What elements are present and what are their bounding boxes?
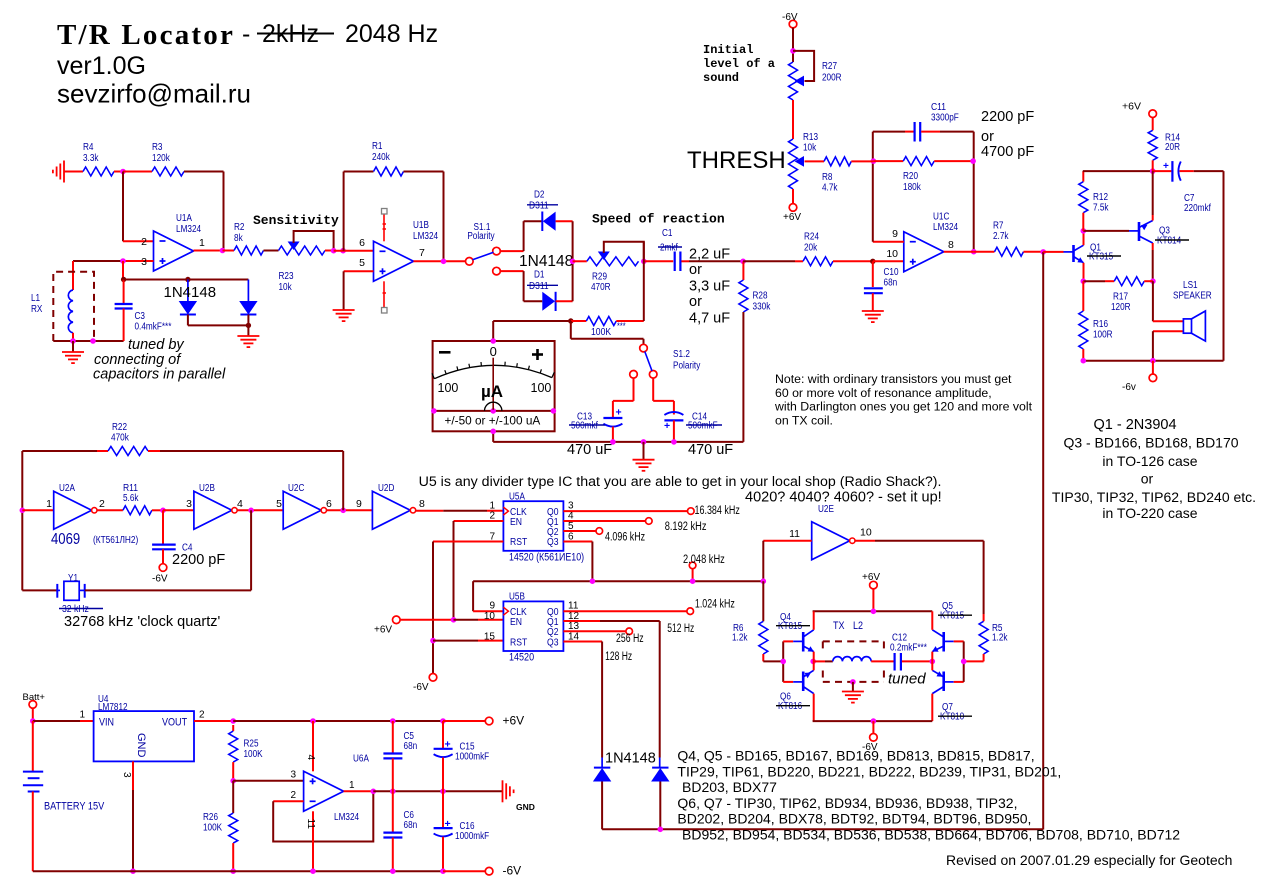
svg-text:+6V: +6V: [1122, 101, 1141, 113]
capacitor C4: [162, 510, 164, 544]
wire: [792, 28, 794, 62]
svg-text:R17: R17: [1113, 292, 1128, 303]
svg-text:+: +: [445, 818, 451, 830]
resistor R28: [742, 261, 744, 280]
right vertical from C7: [1223, 171, 1225, 361]
svg-text:in TO-126 case: in TO-126 case: [1102, 453, 1197, 469]
svg-text:Initial: Initial: [703, 43, 753, 57]
right base bracket: [963, 641, 965, 682]
svg-text:8k: 8k: [234, 233, 244, 244]
meter feed node: [568, 318, 573, 323]
TX bottom rail: [813, 720, 933, 722]
coil TX L2: [813, 660, 825, 662]
svg-text:220mkf: 220mkf: [1184, 203, 1211, 214]
battery BATTERY 15V: [32, 721, 34, 772]
svg-text:R22: R22: [112, 422, 127, 433]
svg-text:with Darlington ones you get 1: with Darlington ones you get 120 and mor…: [774, 400, 1033, 414]
node EN junction: [451, 617, 457, 623]
svg-text:Q3 - BD166, BD168, BD170: Q3 - BD166, BD168, BD170: [1063, 435, 1238, 451]
capacitor C14 (500mkF crossed): [664, 412, 683, 415]
svg-text:1000mkF: 1000mkF: [455, 831, 489, 842]
resistor R26: [232, 781, 234, 813]
svg-text:5: 5: [359, 257, 365, 269]
U5B Q2 out 256Hz: [563, 630, 626, 632]
svg-text:3: 3: [141, 256, 147, 268]
svg-text:7.5k: 7.5k: [1093, 203, 1109, 214]
svg-text:32768 kHz 'clock quartz': 32768 kHz 'clock quartz': [64, 614, 220, 630]
svg-text:3: 3: [121, 772, 132, 778]
svg-text:1: 1: [79, 710, 85, 721]
svg-text:in TO-220 case: in TO-220 case: [1102, 505, 1197, 521]
svg-text:20R: 20R: [1165, 142, 1180, 153]
svg-text:EN: EN: [510, 616, 522, 628]
resistor R4: [83, 167, 114, 176]
terminal +6V TX: [870, 581, 878, 589]
diode D6 1N4148 right: [247, 280, 249, 302]
svg-text:SPEAKER: SPEAKER: [1173, 291, 1212, 302]
svg-text:D2: D2: [534, 190, 545, 201]
svg-text:L1: L1: [31, 293, 40, 304]
svg-text:1: 1: [46, 498, 52, 510]
svg-text:120k: 120k: [152, 153, 171, 164]
svg-text:3300pF: 3300pF: [931, 113, 959, 124]
resistor R2: [223, 250, 235, 252]
svg-text:20k: 20k: [804, 243, 818, 254]
svg-text:11: 11: [305, 819, 316, 830]
svg-text:0.2mkF***: 0.2mkF***: [890, 643, 927, 654]
terminal 2.048kHz: [689, 562, 696, 569]
potentiometer R27: [789, 62, 798, 100]
pin9 wire: [873, 241, 904, 243]
svg-text:C3: C3: [135, 311, 146, 322]
meter ticks: [432, 373, 434, 379]
inverter U2E: [812, 522, 850, 560]
svg-text:+: +: [445, 739, 451, 751]
svg-text:-6V: -6V: [413, 682, 429, 693]
TX top rail: [813, 610, 933, 612]
svg-text:-: -: [242, 20, 250, 48]
svg-text:GND: GND: [516, 802, 535, 812]
U1B power pins: [383, 214, 385, 242]
svg-text:60 or more volt of resonance a: 60 or more volt of resonance amplitude,: [775, 386, 992, 400]
svg-text:BD952, BD954, BD534, BD536, BD: BD952, BD954, BD534, BD536, BD538, BD664…: [682, 827, 1180, 843]
svg-text:4.7k: 4.7k: [822, 183, 838, 194]
svg-text:U2D: U2D: [378, 483, 394, 494]
svg-text:VOUT: VOUT: [162, 717, 187, 729]
wire VIN: [33, 720, 80, 722]
wire L1 bottom: [53, 340, 123, 342]
meter needle: [492, 358, 494, 410]
svg-text:T/R Locator: T/R Locator: [57, 19, 235, 51]
svg-text:KT810: KT810: [940, 712, 965, 723]
svg-text:Sensitivity: Sensitivity: [253, 213, 339, 228]
U5A RST wire: [433, 541, 503, 543]
node R17 right: [1150, 278, 1156, 284]
svg-text:U2B: U2B: [199, 483, 215, 494]
svg-text:+6V: +6V: [783, 212, 801, 223]
resistor R22: [22, 450, 97, 452]
svg-text:R12: R12: [1093, 192, 1108, 203]
svg-text:100K: 100K: [203, 823, 222, 834]
svg-text:7: 7: [419, 247, 425, 259]
svg-text:4,7 uF: 4,7 uF: [689, 311, 730, 327]
U6A output GND row: [344, 790, 374, 792]
svg-text:tuned by: tuned by: [128, 337, 184, 353]
svg-text:TIP30, TIP32, TIP62, BD240 et: TIP30, TIP32, TIP62, BD240 etc.: [1052, 489, 1256, 505]
svg-text:U2C: U2C: [288, 483, 304, 494]
resistor R7: [974, 251, 995, 253]
node R7 out: [1040, 249, 1046, 255]
svg-text:100K: 100K: [591, 326, 611, 338]
L1 shield dashed box: [53, 272, 94, 341]
svg-text:1000mkF: 1000mkF: [455, 752, 489, 763]
resistor R25: [232, 725, 234, 731]
svg-text:4.096 kHz: 4.096 kHz: [605, 532, 645, 544]
feedback top wire: [873, 131, 905, 133]
svg-text:or: or: [689, 262, 702, 278]
svg-text:sound: sound: [703, 71, 739, 85]
U5A EN wire: [454, 520, 504, 522]
svg-text:200R: 200R: [822, 73, 842, 84]
U5A Q2 out 4.096kHz: [563, 530, 596, 532]
svg-text:R20: R20: [903, 171, 918, 182]
node diode D5: [185, 277, 190, 282]
op-amp U1A: [154, 231, 194, 271]
svg-text:2.048 kHz: 2.048 kHz: [683, 554, 725, 566]
svg-text:14520 (К561ИЕ10): 14520 (К561ИЕ10): [509, 552, 584, 564]
wire S1.1 up to D2 branch: [500, 250, 524, 252]
svg-text:THRESH: THRESH: [687, 147, 786, 174]
svg-text:1N4148: 1N4148: [164, 284, 217, 301]
svg-text:470 uF: 470 uF: [567, 442, 612, 458]
svg-text:R29: R29: [592, 272, 607, 283]
switch S1.1: [466, 258, 474, 266]
U1A output wire: [194, 250, 223, 252]
IC U5B 14520 box: [503, 601, 563, 651]
svg-text:2200 pF: 2200 pF: [981, 109, 1034, 125]
svg-text:tuned: tuned: [888, 671, 926, 688]
capacitor C5: [392, 721, 394, 754]
node R6 top: [761, 578, 767, 584]
svg-text:R8: R8: [822, 172, 833, 183]
svg-text:2: 2: [99, 498, 105, 510]
2.048 kHz rail: [473, 580, 763, 582]
U5B Q3 out 128Hz: [563, 641, 602, 643]
svg-text:2: 2: [290, 790, 296, 801]
svg-text:Polarity: Polarity: [467, 231, 494, 242]
svg-text:R24: R24: [804, 232, 819, 243]
svg-text:1.024 kHz: 1.024 kHz: [695, 599, 735, 611]
svg-text:***: ***: [617, 321, 626, 331]
svg-text:120R: 120R: [1111, 302, 1131, 313]
wire to Q3 base: [1083, 230, 1129, 232]
svg-text:U5A: U5A: [509, 492, 525, 503]
ground under L1: [72, 341, 74, 352]
svg-text:U1C: U1C: [933, 212, 949, 223]
svg-text:LM324: LM324: [933, 222, 958, 233]
svg-text:2200 pF: 2200 pF: [172, 552, 225, 568]
coil L1 RX: [72, 261, 74, 290]
svg-text:500mkF: 500mkF: [688, 421, 718, 432]
diode D5 1N4148 left: [187, 280, 189, 302]
left base bracket: [782, 641, 784, 682]
svg-text:R2: R2: [234, 222, 245, 233]
svg-text:U5B: U5B: [509, 592, 525, 603]
U1C output node: [971, 249, 977, 255]
potentiometer R29: [573, 260, 587, 262]
svg-text:3: 3: [290, 770, 296, 781]
node TX emitters right: [930, 659, 936, 665]
ground U1B pin5: [333, 310, 355, 321]
svg-text:ver1.0G: ver1.0G: [57, 52, 146, 80]
wire Q3 emitter to rail: [1152, 171, 1154, 215]
svg-text:470k: 470k: [111, 433, 130, 444]
svg-text:Speed of reaction: Speed of reaction: [592, 212, 725, 227]
svg-text:5: 5: [276, 498, 282, 510]
wire meter top: [493, 320, 571, 322]
wire: [123, 171, 152, 173]
capacitor C10: [872, 261, 874, 287]
resistor R8: [824, 157, 851, 166]
svg-text:KT815: KT815: [778, 621, 803, 632]
wire Q3 collector down: [1152, 243, 1154, 250]
svg-text:LM324: LM324: [334, 812, 359, 823]
resistor R3: [152, 167, 184, 176]
svg-text:on TX coil.: on TX coil.: [775, 413, 833, 427]
left feedback rail: [21, 451, 23, 590]
svg-text:10k: 10k: [803, 143, 817, 154]
svg-text:1: 1: [349, 780, 355, 791]
wire U2B out: [237, 509, 283, 511]
svg-text:(КТ561ЛН2): (КТ561ЛН2): [93, 535, 138, 546]
svg-text:+: +: [664, 420, 670, 432]
svg-text:GND: GND: [135, 733, 147, 758]
node +6V/C7: [1150, 168, 1156, 174]
svg-text:Q1 - 2N3904: Q1 - 2N3904: [1093, 417, 1176, 433]
svg-text:1.2k: 1.2k: [992, 633, 1008, 644]
ground under C10: [862, 311, 884, 322]
svg-text:68n: 68n: [404, 820, 418, 831]
node RST junction: [430, 638, 436, 644]
svg-text:Q3: Q3: [547, 536, 559, 548]
op-amp U6A: [304, 771, 344, 811]
svg-text:68n: 68n: [404, 741, 418, 752]
svg-text:R26: R26: [203, 812, 218, 823]
capacitor C13 (500mkf crossed): [603, 417, 622, 419]
U1B output: [414, 260, 467, 262]
svg-text:BATTERY 15V: BATTERY 15V: [44, 801, 105, 813]
svg-text:+6V: +6V: [503, 714, 525, 728]
mute rail bottom: [602, 828, 1043, 830]
svg-text:Q3: Q3: [547, 636, 559, 648]
svg-text:U1B: U1B: [413, 220, 429, 231]
resistor R5: [983, 614, 985, 621]
inverter U2C: [283, 491, 321, 529]
svg-text:-6V: -6V: [503, 864, 522, 878]
svg-text:500mkf: 500mkf: [571, 421, 598, 432]
svg-text:R25: R25: [244, 739, 259, 750]
svg-text:capacitors in parallel: capacitors in parallel: [93, 367, 226, 383]
feedback left vertical: [872, 132, 874, 242]
node Q3 base drive: [1081, 228, 1087, 234]
capacitor C3: [122, 261, 124, 280]
resistor R11: [123, 506, 152, 515]
bottom rail output stage: [1083, 360, 1223, 362]
svg-text:level of a: level of a: [703, 57, 775, 71]
svg-text:4: 4: [305, 755, 316, 761]
svg-text:9: 9: [892, 228, 898, 240]
node R22 tap: [340, 508, 346, 514]
capacitor C1 (2mkf crossed): [644, 260, 673, 262]
terminal +6V bottom: [789, 204, 797, 212]
wire to clamp diodes: [124, 279, 249, 281]
node U2A input: [20, 508, 26, 514]
wire node to U1B pin6: [334, 250, 374, 252]
svg-text:1N4148: 1N4148: [605, 751, 656, 767]
node battery +: [30, 718, 36, 724]
svg-text:3: 3: [186, 498, 192, 510]
speaker LS1: [1183, 319, 1191, 333]
svg-text:10: 10: [860, 527, 872, 539]
wire R27-R13: [792, 100, 794, 139]
svg-text:100: 100: [531, 381, 552, 395]
wire R13 bottom: [792, 189, 794, 204]
ground TX centre tap: [850, 679, 856, 685]
svg-text:LM324: LM324: [176, 224, 201, 235]
svg-text:256 Hz: 256 Hz: [616, 633, 644, 645]
resistor R24: [743, 260, 795, 262]
capacitor C6: [392, 791, 394, 832]
transistor Q4 KT815: [783, 640, 793, 642]
terminal +6V psu: [485, 717, 493, 725]
terminal -6V TX: [872, 721, 874, 734]
potentiometer R13: [789, 139, 798, 189]
terminal -6v bottom: [1152, 361, 1154, 375]
terminal -6V psu: [485, 867, 493, 875]
wire R3 to U1A output node: [184, 171, 224, 173]
inverter U2A: [54, 491, 92, 529]
svg-text:U1A: U1A: [176, 213, 192, 224]
capacitor C11: [905, 131, 914, 133]
node TX emitters left: [810, 659, 816, 665]
svg-text:VIN: VIN: [99, 717, 114, 729]
node R23 out: [331, 248, 337, 254]
wire S1.2 right to C14: [652, 378, 654, 401]
svg-text:C1: C1: [662, 228, 673, 239]
svg-text:2048 Hz: 2048 Hz: [345, 20, 438, 48]
svg-text:R16: R16: [1093, 319, 1108, 330]
svg-text:8.192 kHz: 8.192 kHz: [665, 521, 707, 533]
svg-text:6: 6: [359, 237, 365, 249]
svg-text:R7: R7: [993, 221, 1004, 232]
svg-text:+: +: [1163, 161, 1169, 172]
U6A pin2 feedback: [273, 800, 303, 802]
svg-text:sevzirfo@mail.ru: sevzirfo@mail.ru: [57, 79, 251, 109]
resistor R1 feedback: [343, 172, 345, 251]
wire S1.1 down to D1 branch: [500, 270, 524, 272]
diode D1 (D311 crossed): [542, 292, 555, 311]
svg-text:Note: with ordinary transistor: Note: with ordinary transistors you must…: [775, 372, 1012, 386]
svg-text:-6V: -6V: [782, 12, 798, 23]
U5B Q1 out 512Hz: [563, 620, 600, 622]
U6A pin4: [312, 721, 314, 771]
wire U2A out: [97, 509, 123, 511]
meter face labels: [439, 351, 451, 354]
TX dashed box: [823, 640, 884, 642]
svg-text:128 Hz: 128 Hz: [605, 651, 632, 663]
svg-text:180k: 180k: [903, 182, 922, 193]
svg-text:TIP29, TIP61, BD220, BD221, BD: TIP29, TIP61, BD220, BD221, BD222, BD239…: [677, 764, 1061, 780]
wire U2E input: [763, 540, 811, 542]
svg-text:C11: C11: [931, 102, 946, 113]
transistor Q7 KT810: [932, 670, 943, 677]
svg-text:+: +: [616, 407, 622, 419]
svg-text:S1.2: S1.2: [673, 349, 690, 360]
svg-text:U2A: U2A: [59, 483, 75, 494]
meter scale arc: [434, 365, 552, 378]
wire Q1 emitter: [1083, 263, 1085, 281]
wire S1.2 left to C13: [633, 378, 635, 401]
resistor R14: [1149, 110, 1157, 118]
U4 GND pin: [132, 761, 134, 790]
svg-text:RX: RX: [31, 304, 43, 315]
U5A Q0 out 16.384kHz: [563, 510, 688, 512]
svg-text:D1: D1: [534, 270, 545, 281]
U1B pin5 wire to ground: [344, 270, 374, 272]
IC U5A 14520 box: [503, 501, 563, 551]
svg-text:-6v: -6v: [1122, 382, 1136, 393]
svg-text:Polarity: Polarity: [673, 361, 700, 372]
svg-text:4700 pF: 4700 pF: [981, 144, 1034, 160]
svg-text:R27: R27: [822, 61, 837, 72]
U5A Q1 out 8.192kHz: [563, 520, 645, 522]
node U1A output: [220, 248, 226, 254]
svg-text:10: 10: [886, 248, 898, 260]
svg-text:KT315: KT315: [1089, 252, 1114, 263]
resistor R16: [1082, 281, 1084, 311]
svg-text:1: 1: [199, 237, 205, 249]
wire U2E out: [855, 540, 875, 542]
wire to pin3: [233, 780, 303, 782]
svg-text:11: 11: [789, 528, 800, 540]
wire 100K node to S1.2: [570, 321, 572, 339]
svg-text:100R: 100R: [1093, 330, 1113, 341]
svg-text:U2E: U2E: [818, 504, 834, 515]
mute diode right 1N4148: [651, 768, 669, 782]
terminal -6V for RST: [429, 674, 437, 682]
svg-text:14520: 14520: [509, 652, 534, 664]
feedback right vertical: [973, 132, 975, 252]
resistor 100K meter: [571, 320, 587, 322]
svg-text:4069: 4069: [51, 531, 80, 548]
svg-text:D311: D311: [529, 281, 549, 292]
ground meter rail: [643, 442, 645, 460]
svg-text:0: 0: [490, 344, 497, 359]
ground GND terminal: [503, 780, 514, 802]
+6V top rail: [233, 720, 443, 722]
svg-text:KT815: KT815: [940, 611, 965, 622]
svg-text:3,3 uF: 3,3 uF: [689, 279, 730, 295]
U5A Q3 out wire: [563, 541, 592, 543]
transistor Q5 KT815: [932, 630, 943, 637]
node R27 top: [790, 48, 796, 54]
svg-text:Q4, Q5 - BD165, BD167, BD169,: Q4, Q5 - BD165, BD167, BD169, BD813, BD8…: [677, 748, 1034, 764]
transistor Q6 KT816: [783, 681, 793, 683]
node junction R4/R3: [120, 169, 126, 175]
diode D2 (D311 crossed): [541, 212, 543, 232]
long wire R7 node down to mute rail: [1042, 252, 1044, 830]
svg-text:BD203, BDX77: BD203, BDX77: [682, 779, 777, 795]
